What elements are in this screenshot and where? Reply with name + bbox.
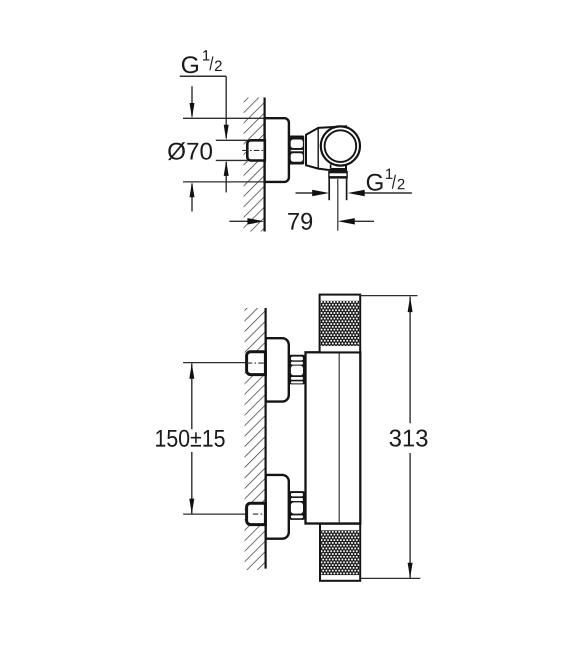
- 150±15 dimension line with arrows: [189, 363, 194, 514]
- wall face line (top view): [264, 98, 266, 232]
- centerline through top nut: [247, 362, 265, 364]
- top wall nut (bottom view): [247, 352, 266, 375]
- 313 dimension line with arrows: [408, 297, 413, 579]
- extension line 150 bottom: [183, 513, 253, 515]
- label G1/2 (top left): [182, 50, 222, 73]
- 79 dimension right arrow: [338, 218, 374, 224]
- nut centerline (dash-dot): [242, 149, 263, 151]
- handle inner circle: [325, 130, 357, 162]
- G1/2 right arrow pointing right at pipe: [296, 190, 330, 196]
- outlet collar: [328, 171, 348, 179]
- bottom union connector (bottom view): [289, 491, 304, 520]
- leader underline G1/2 top: [180, 75, 226, 77]
- extension line Ø70 bottom: [183, 181, 265, 183]
- extension line inlet bottom: [216, 159, 248, 161]
- body edge highlight line: [338, 352, 340, 523]
- leader vertical G1/2 with down arrow: [224, 76, 229, 140]
- label G1/2 (right of outlet pipe): [367, 169, 405, 191]
- centerline through bottom nut: [253, 513, 265, 515]
- top union connector (bottom view): [289, 355, 304, 385]
- extension line Ø70 top: [183, 117, 265, 119]
- mixer body (bottom view): [306, 352, 361, 523]
- outlet pipe centerline: [337, 179, 339, 231]
- bottom escutcheon (bottom view): [266, 475, 289, 539]
- union connector (top view): [289, 136, 304, 165]
- G1/2 leader line with left arrow at pipe: [348, 190, 412, 196]
- wall hatch (bottom view): [245, 308, 266, 570]
- wall nut (top view): [247, 140, 264, 160]
- label Ø70: [168, 142, 212, 160]
- extension line inlet top: [216, 139, 248, 141]
- label 313: [390, 430, 428, 447]
- bottom knurled handle: [320, 524, 360, 581]
- label 79: [288, 213, 312, 230]
- G1/2 up arrow below inlet: [224, 160, 229, 192]
- bottom wall nut (bottom view): [247, 503, 266, 524]
- outlet neck: [330, 165, 346, 171]
- handle outer circle (top view): [321, 126, 360, 165]
- body facet line: [317, 128, 319, 169]
- 313 extension line bottom: [361, 577, 420, 579]
- top knurled handle: [320, 295, 361, 353]
- top escutcheon (bottom view): [266, 338, 289, 401]
- wall face line (bottom view): [265, 308, 267, 569]
- wall hatch (top view): [244, 98, 265, 232]
- escutcheon flange (top view): [265, 118, 289, 182]
- 313 extension line top: [360, 295, 418, 297]
- valve body (top view): [306, 126, 346, 170]
- extension line 150 top: [183, 362, 247, 364]
- outlet pipe: [329, 179, 346, 201]
- label 150±15: [156, 430, 225, 447]
- 79 dimension left arrow: [229, 218, 264, 224]
- Ø70 dimension arrows: [190, 86, 195, 211]
